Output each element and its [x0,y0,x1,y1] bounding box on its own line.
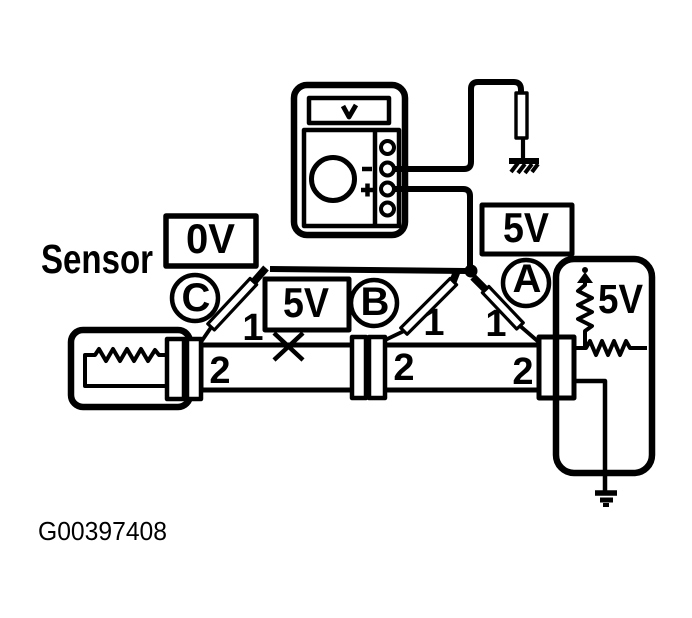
ECU series resistor (horizontal) [574,341,647,355]
svg-text:1: 1 [423,302,444,344]
node A circle [503,260,549,306]
wire from V+ terminal down to probe junction [394,189,470,268]
svg-text:5V: 5V [598,276,644,322]
node C circle [172,275,218,321]
ground symbol (top right) [509,161,539,173]
multimeter display V reading [343,105,356,117]
svg-text:2: 2 [209,350,230,392]
svg-text:1: 1 [485,303,506,345]
svg-text:5V: 5V [283,279,329,326]
ECU pull-up resistor (vertical) [578,281,592,348]
probe B (to middle connector pin 1) [379,271,457,343]
multimeter terminal 1 [381,141,394,154]
svg-text:C: C [182,276,211,320]
minus sign [362,167,372,172]
svg-text:5V: 5V [503,204,549,251]
probe A (to right connector pin 1) [473,277,541,344]
junction node [465,265,478,278]
multimeter U1 body [294,85,405,235]
plus sign [361,184,374,197]
wire from COM terminal to top probe [394,82,521,169]
svg-text:1: 1 [242,307,263,349]
multimeter terminal 4 [381,203,394,216]
svg-text:B: B [361,280,390,324]
multimeter front panel [304,130,399,226]
svg-text:A: A [513,257,542,301]
multimeter panel divider [373,130,378,226]
label box 5V (middle) [265,279,349,330]
multimeter terminal 2 (COM) [381,163,394,176]
connector A (right) [539,337,574,398]
connector B (middle) [352,337,385,398]
connector C (left) [167,339,201,399]
X mark (break in wire) [274,333,303,360]
svg-text:G00397408: G00397408 [38,516,167,546]
node B circle [351,280,397,326]
svg-text:2: 2 [512,351,533,393]
multimeter terminal 3 (V+) [381,183,394,196]
svg-text:2: 2 [393,347,414,389]
sensor internal resistor [85,349,167,386]
multimeter display window [309,98,389,123]
multimeter dial [312,158,355,201]
svg-text:Sensor: Sensor [41,236,153,282]
label box 5V (top right) [482,205,572,254]
svg-text:0V: 0V [186,215,235,262]
probe C (to left connector pin 1) [201,268,266,342]
ground symbol (bottom right) [595,493,617,505]
ECU ground wire [574,381,605,491]
ECU 5V supply arrow [577,267,593,283]
label box 0V [166,216,256,266]
ECU box [556,259,652,473]
wire from junction to probe C [270,269,466,271]
wiring harness bar [201,345,539,390]
top test probe body [516,93,527,159]
sensor box [71,330,190,407]
